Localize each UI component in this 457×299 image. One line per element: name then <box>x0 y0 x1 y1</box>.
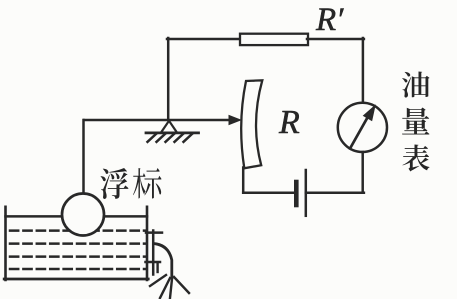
label 浮 (float) <box>101 168 129 199</box>
battery negative plate (short thick) <box>294 182 299 205</box>
liquid dashed line 4 <box>10 268 145 271</box>
wire step up to rheostat R bottom <box>242 168 245 193</box>
spray line 3 <box>170 279 172 298</box>
ground hatch 4 <box>175 134 184 142</box>
rheostat R curved band <box>241 80 262 168</box>
label 表 (meter) <box>403 145 430 172</box>
pipe elbow spout <box>154 244 172 278</box>
wire bottom right horizontal <box>306 191 364 194</box>
pipe flange tick bottom <box>146 261 161 264</box>
ground hatch 3 <box>166 134 175 142</box>
wire meter bottom vertical <box>361 152 364 193</box>
tank left wall <box>4 207 7 280</box>
float ball <box>62 194 104 236</box>
wiper arrowhead <box>229 115 243 125</box>
label 标 (marker) <box>133 168 162 199</box>
liquid dashed line 3 <box>10 255 145 258</box>
ground hatch 2 <box>157 134 166 142</box>
tank bottom <box>4 278 148 281</box>
spray line 4 <box>174 277 189 293</box>
spray line 2 <box>160 278 170 298</box>
wire from R' to top-right corner <box>307 38 364 41</box>
tank liquid surface line <box>6 215 148 218</box>
svg-text:R′: R′ <box>315 2 344 38</box>
label 油 (oil) <box>402 72 430 98</box>
resistor R' body <box>240 34 308 45</box>
pivot fulcrum triangle <box>162 121 177 132</box>
wire top-left horizontal to resistor R' <box>167 38 241 41</box>
pipe stub below tick <box>156 263 158 273</box>
ground hatch 1 <box>148 134 157 142</box>
liquid dashed line 1 <box>10 229 145 232</box>
spray line 1 <box>150 275 166 286</box>
meter needle arrowhead <box>363 104 376 121</box>
wire bottom left horizontal <box>243 191 294 194</box>
float rod <box>82 120 85 194</box>
wire right vertical (top corner down to meter) <box>362 38 365 103</box>
label 量 (gauge) <box>402 108 430 135</box>
battery positive plate (long) <box>305 170 308 216</box>
pipe vertical line <box>152 231 155 275</box>
tank right wall <box>146 207 149 280</box>
ground hatch 5 <box>184 134 193 142</box>
liquid dashed line 2 <box>10 242 145 245</box>
meter needle <box>350 118 368 149</box>
wire left vertical (top corner down to lever pivot) <box>167 38 170 120</box>
pipe flange tick top <box>146 231 162 234</box>
oil gauge meter U1 circle <box>338 103 387 152</box>
lever wiper arm <box>84 119 231 122</box>
ground line <box>146 131 199 134</box>
svg-text:R: R <box>278 104 300 141</box>
